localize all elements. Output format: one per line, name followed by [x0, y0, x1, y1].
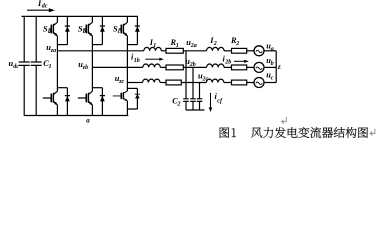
svg-text:b: b [83, 29, 86, 35]
wire [247, 82, 254, 84]
wire: grid neutral rail (node z) [275, 51, 277, 83]
transistor Sc' (bottom IGBT with antiparallel diode, leg c) [113, 88, 140, 109]
transistor Sb' (bottom IGBT with antiparallel diode, leg b) [78, 88, 105, 116]
DC source u_dc branch wire [23, 16, 25, 115]
svg-text:dc: dc [42, 3, 48, 9]
wire: node u_2b to L2 [183, 66, 206, 68]
wire: node u_2a to L2 [183, 50, 206, 52]
transistor Sb (top IGBT with antiparallel diode, leg b) [84, 16, 105, 44]
svg-text:z: z [277, 62, 281, 71]
svg-text:c: c [271, 76, 274, 82]
resistor R2 (phase c) [232, 80, 247, 85]
svg-text:c: c [118, 29, 121, 35]
capacitor C2 branch phase a [183, 51, 189, 110]
capacitor C2 branch phase b [190, 67, 196, 110]
wire: C2 common bus [186, 109, 205, 111]
AC source u_a (grid phase a) [254, 46, 264, 56]
AC source u_c (grid phase c) [254, 78, 264, 88]
transistor Sa (top IGBT with antiparallel diode, leg a) [49, 16, 70, 44]
current arrow i_1b [145, 58, 164, 61]
wire: node u_2c to L2 [181, 82, 206, 84]
inductor L1 (phase a) [144, 47, 161, 50]
svg-text:a: a [271, 46, 274, 52]
wire [264, 66, 276, 68]
svg-text:2a: 2a [190, 43, 197, 49]
svg-text:2: 2 [235, 41, 239, 47]
wire [224, 82, 232, 84]
current arrow I_dc [27, 8, 55, 12]
wire [247, 50, 254, 52]
paragraph return mark (gray) above caption [282, 117, 287, 124]
AC source u_b (grid phase b) [254, 62, 264, 72]
wire: phase c output line [127, 82, 142, 84]
capacitor C1 plates [31, 62, 42, 65]
paragraph return mark (gray) after caption [370, 129, 375, 136]
wire [160, 82, 166, 84]
wire: phase-leg a midline [56, 45, 58, 88]
node: bottom cell c collector bar [127, 87, 137, 89]
DC source u_dc plates [19, 62, 30, 65]
wire [264, 50, 276, 52]
wire [247, 66, 254, 68]
svg-text:1: 1 [176, 43, 179, 49]
inductor L2 (phase a) [207, 47, 224, 50]
svg-text:dc: dc [13, 64, 19, 70]
svg-text:2b: 2b [224, 60, 231, 66]
node: top cell a emitter bar [57, 44, 67, 46]
wire: phase-leg b midline [91, 45, 93, 88]
resistor R1 (phase b) [166, 65, 183, 70]
wire [160, 66, 166, 68]
node: top cell b emitter bar [92, 44, 102, 46]
resistor R1 (phase c) [166, 80, 181, 85]
current arrow i_cf (capacitor current) [209, 93, 213, 112]
inductor L2 (phase b) [207, 64, 224, 67]
svg-text:zc: zc [118, 79, 124, 85]
inductor L1 (phase b) [143, 64, 160, 67]
current arrow i_2b [234, 60, 249, 63]
wire: positive DC bus (top rail) [22, 15, 139, 17]
inductor L2 (phase c) [206, 79, 223, 82]
resistor R2 (phase a) [232, 48, 247, 53]
svg-text:b: b [271, 61, 274, 67]
caption text: 图1 风力发电变流器结构图 (drawn as glyph outlines) [220, 127, 368, 138]
node: bottom cell b collector bar [92, 87, 102, 89]
resistor R1 (phase a) [166, 48, 183, 53]
svg-text:za: za [50, 48, 56, 54]
wire [224, 66, 232, 68]
wire [161, 50, 166, 52]
svg-text:a: a [86, 117, 90, 125]
wire: phase-leg c midline [126, 45, 128, 89]
svg-text:1b: 1b [134, 58, 140, 64]
wire: phase b output line [92, 66, 142, 68]
transistor Sc (top IGBT with antiparallel diode, leg c) [119, 16, 140, 44]
svg-text:2c: 2c [202, 77, 209, 83]
svg-text:2: 2 [213, 41, 217, 47]
svg-text:a: a [48, 29, 51, 35]
wire: negative DC bus (bottom rail) [24, 115, 128, 117]
inductor L1 (phase c) [143, 79, 160, 82]
wire [264, 82, 276, 84]
capacitor C1 branch wire [35, 16, 37, 115]
node: bottom cell a collector bar [57, 87, 67, 89]
node: bottom cell c emitter bar [127, 109, 137, 116]
wire: phase a output line [57, 50, 143, 52]
svg-text:1: 1 [153, 43, 156, 49]
svg-text:2b: 2b [189, 62, 196, 68]
svg-text:zb: zb [82, 65, 88, 71]
svg-text:2: 2 [177, 102, 181, 108]
transistor Sa' (bottom IGBT with antiparallel diode, leg a) [43, 88, 70, 116]
resistor R2 (phase b) [232, 65, 247, 70]
svg-text:1: 1 [49, 64, 52, 70]
capacitor C2 branch phase c [197, 83, 203, 111]
node: top cell c emitter bar [127, 44, 137, 46]
wire [224, 50, 232, 52]
